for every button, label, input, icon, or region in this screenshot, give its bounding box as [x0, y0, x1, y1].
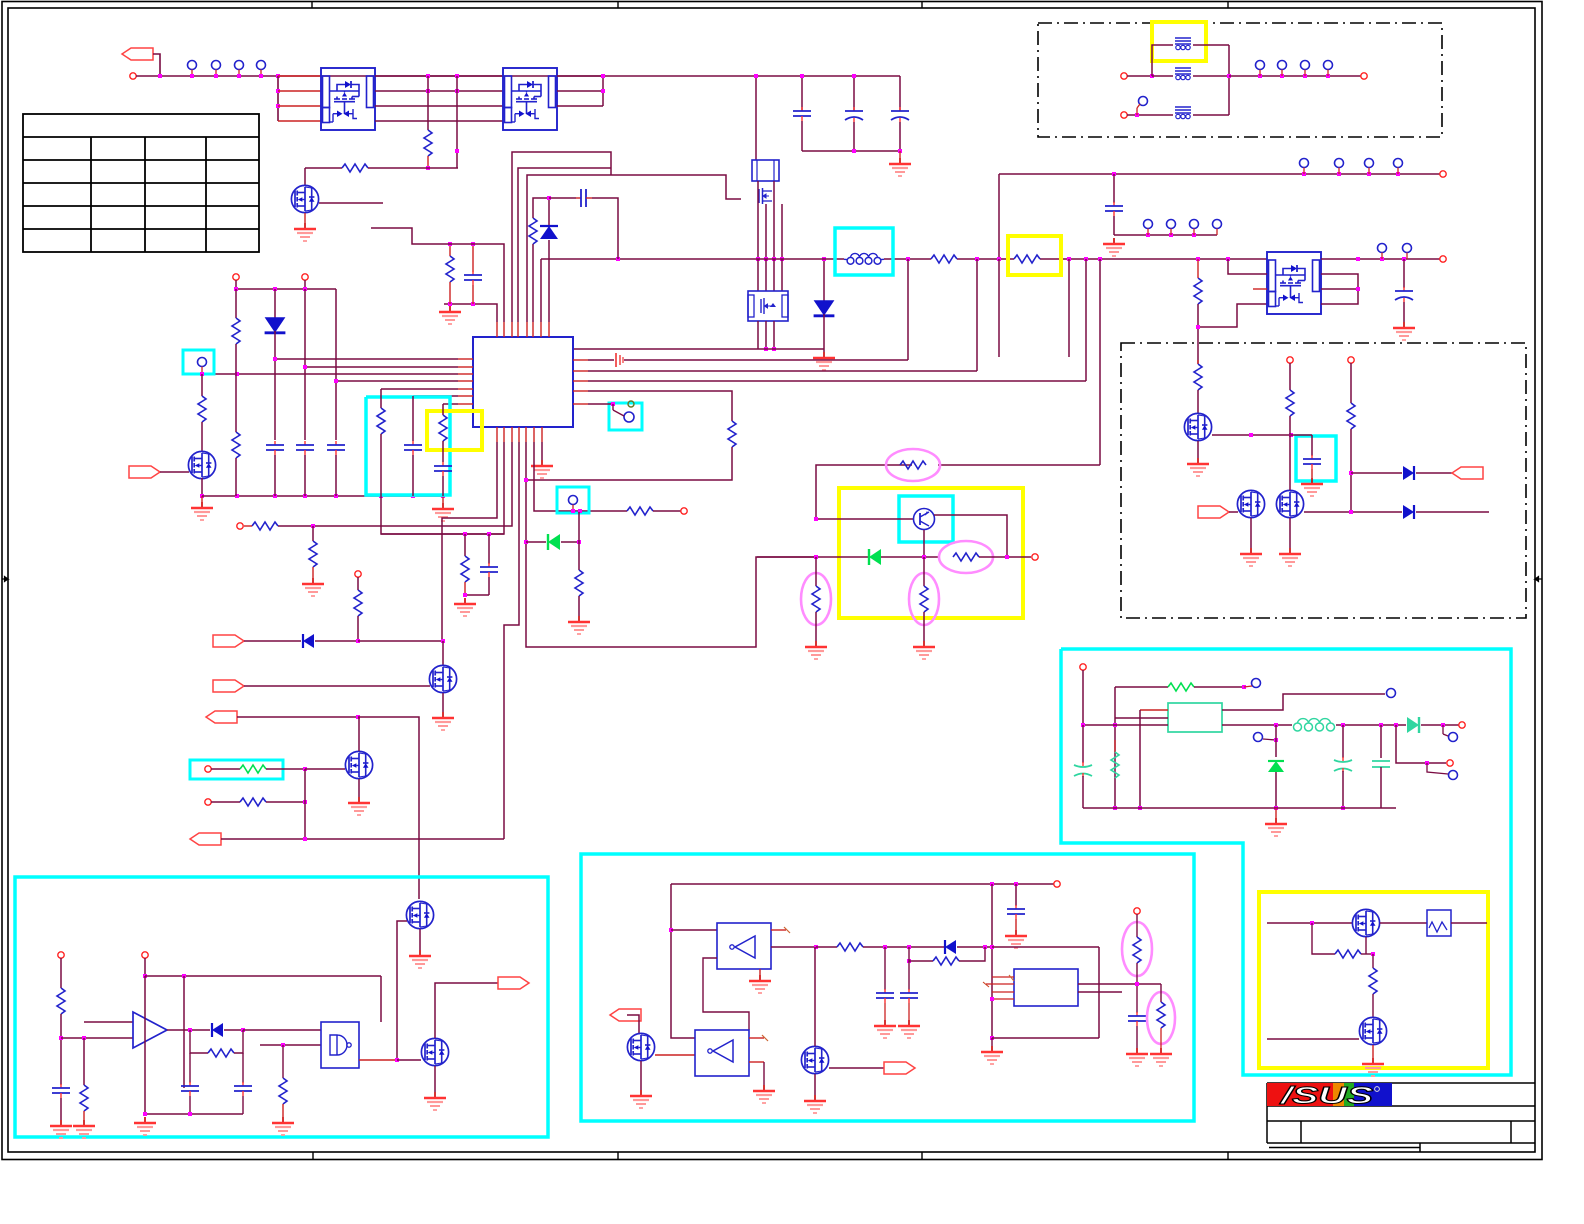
IC bottom pins — [496, 427, 498, 442]
capacitor C16 mint — [1342, 725, 1344, 758]
wire Q13 drain to diode D9 — [1304, 511, 1402, 513]
pin y404 cyan TP box — [609, 403, 642, 430]
test points TP row — [1300, 159, 1309, 175]
mosfet Q3 — [291, 185, 318, 212]
diode D4 column — [274, 289, 276, 318]
resistor R17 — [442, 404, 444, 415]
resistor R10 drop — [1194, 278, 1202, 304]
magenta ellipse R40 — [1147, 992, 1175, 1044]
connector arrow P7 — [1452, 467, 1483, 479]
mosfet Q4 — [759, 188, 772, 204]
pin x534 run — [534, 442, 627, 511]
capacitor C8 — [549, 197, 576, 199]
resistor R21 — [627, 507, 653, 515]
capacitor C5 — [1113, 174, 1115, 203]
diode D13 — [945, 940, 956, 954]
inductor L1 highlight box — [835, 228, 893, 275]
pin wire x527 — [527, 175, 741, 322]
main sense bus — [757, 556, 816, 558]
wire Q7 source to gnd bus — [201, 478, 203, 496]
cyan TP box left — [183, 350, 214, 374]
wire Q3 drain right — [319, 202, 383, 204]
wire base row — [816, 518, 914, 520]
left bus wires — [275, 358, 458, 360]
out row — [771, 946, 816, 948]
test point TP2 — [212, 61, 221, 77]
caps C22 C23 — [884, 947, 886, 990]
resistor R16 — [380, 389, 382, 408]
mosfet Q9 — [345, 751, 372, 778]
capacitor C2 — [853, 76, 855, 111]
pin x512 run — [278, 442, 512, 526]
output row + inductor L2 — [1222, 724, 1292, 726]
capacitor C17 mint — [1380, 725, 1382, 758]
dash-dot highlight box middle right — [1121, 343, 1526, 618]
magenta ellipse R29 + resistor — [801, 573, 831, 625]
cyan highlight box — [899, 496, 953, 542]
resistor R1 column — [427, 76, 429, 130]
capacitor C12 — [412, 396, 414, 441]
controller U6 — [1014, 969, 1078, 1006]
wire emitter down — [923, 530, 925, 557]
ground Q7 — [201, 496, 203, 502]
border zone tick top 2 — [617, 2, 619, 9]
wire from VIN down — [755, 76, 757, 160]
top feedback wire — [145, 975, 381, 977]
gate loop resistor R41 — [1312, 923, 1335, 954]
IC top pin risers — [496, 322, 498, 337]
diode D3 + wire x549 — [548, 240, 550, 322]
ground low bus — [813, 352, 835, 370]
border zone tick bottom 1 — [312, 1152, 314, 1160]
border zone tick top 1 — [311, 2, 313, 9]
mosfet Q12 + arrow P8 — [1198, 506, 1229, 518]
pin y391 wire + resistor R18 — [588, 391, 732, 421]
resistor R19 — [252, 522, 278, 530]
pin wire x533 + resistor R12 — [532, 244, 534, 322]
ferrite bead FB3 — [1175, 107, 1191, 119]
wire collector right — [934, 515, 1007, 557]
wires right of pack Q6 — [1321, 258, 1440, 260]
ground right — [442, 496, 444, 503]
magenta ellipse R27 — [886, 449, 940, 481]
cyan highlight box — [581, 854, 1194, 1121]
regulator U2 — [1168, 703, 1222, 732]
capacitor C24 — [1128, 1012, 1146, 1026]
green diode D7 — [869, 549, 881, 565]
capacitor C18 — [52, 1084, 70, 1098]
lower bead branch — [1121, 112, 1127, 118]
terminal + resistor R26 — [205, 799, 211, 805]
wire rows into Q1 pack — [278, 90, 321, 92]
wire top ellipse run — [938, 464, 1100, 466]
resistor R34 — [80, 1085, 88, 1111]
mosfet Q8 — [442, 641, 444, 665]
resistor R15 — [232, 432, 240, 458]
wire top row — [1115, 686, 1168, 688]
wire Q3 source — [304, 213, 306, 223]
test point TP4 — [257, 61, 266, 77]
wire loop from diode down — [992, 946, 1099, 948]
yellow highlight box — [1259, 892, 1488, 1068]
bottom join wire — [145, 1113, 243, 1115]
border zone tick bottom 4 — [1227, 1152, 1229, 1160]
mosfet pack Q5 — [748, 291, 788, 321]
capacitor C9 — [266, 441, 284, 455]
ground C6 — [1393, 322, 1415, 340]
wires Q4 to bus — [757, 181, 759, 258]
pin x519 run — [504, 442, 519, 839]
inductor L1 — [844, 253, 884, 264]
connector arrow P9 — [498, 977, 529, 989]
wire branch — [381, 533, 504, 535]
top rail wire — [671, 883, 1054, 885]
main 5V bus wire — [541, 258, 844, 260]
magenta ellipse R39 — [1122, 922, 1152, 976]
wire cap join — [802, 150, 900, 152]
wire link — [304, 769, 306, 839]
wire row into pack — [1228, 259, 1267, 274]
mosfet Q16 + arrow — [610, 1009, 641, 1021]
resistor R11 — [449, 244, 451, 256]
mint resistor R32 — [1114, 740, 1116, 752]
resistor R33 — [57, 988, 65, 1014]
ground Q3 — [294, 223, 316, 241]
mosfet Q13 — [1276, 490, 1303, 517]
capacitor C1 — [801, 76, 803, 111]
pins left — [1140, 709, 1168, 711]
wire top row — [1267, 922, 1352, 924]
wire stubs down from bus — [907, 259, 909, 360]
cyan highlight outline — [1061, 649, 1511, 1075]
in+ wire — [84, 1021, 133, 1023]
capacitor C7 — [472, 244, 474, 272]
inverter U7 — [695, 1030, 749, 1076]
resistor R36 — [282, 1045, 284, 1078]
mosfet Q14 — [406, 901, 433, 928]
wire rows right of Q2 — [557, 75, 603, 77]
connector block J2 — [752, 160, 779, 181]
left drop — [671, 884, 695, 1038]
test point TP3 — [235, 61, 244, 77]
yellow highlight box R9 — [1008, 236, 1061, 275]
pin wire x541 bus riser — [540, 259, 542, 322]
cyan box cap C15 — [1296, 436, 1336, 481]
pin x504 run — [381, 442, 504, 534]
border zone tick bottom 3 — [921, 1152, 923, 1160]
column x336 — [335, 289, 337, 381]
junction dots on VIN — [158, 74, 162, 78]
resistor R37 — [837, 943, 863, 951]
capacitor C13 — [434, 462, 452, 476]
mosfet Q11 — [1184, 413, 1211, 440]
wire feed column — [277, 76, 279, 121]
mosfet pack Q1 — [321, 68, 375, 130]
dash-dot highlight box top right — [1038, 23, 1442, 137]
ground — [454, 598, 476, 616]
title block — [1267, 1083, 1535, 1152]
border zone tick top 3 — [921, 2, 923, 9]
resistor R8 — [931, 255, 957, 263]
input wires — [61, 1037, 133, 1039]
ground bottom — [1275, 808, 1277, 818]
mosfet Q19 — [1359, 1017, 1386, 1044]
terminal — [130, 73, 136, 79]
capacitor C14 — [488, 534, 490, 564]
mosfet Q15 — [421, 1038, 448, 1065]
mosfet Q18 — [1352, 909, 1379, 936]
resistor R2 gate — [305, 167, 342, 169]
resistor R35 loop — [190, 1030, 208, 1053]
op out + diode D12 — [167, 1029, 210, 1031]
connector arrow P5 — [206, 711, 237, 723]
terminal col 2 — [142, 952, 148, 958]
IC U1 — [473, 337, 573, 427]
IC left pins — [458, 358, 473, 360]
pin x542 ground — [541, 442, 543, 460]
resistor R22 — [578, 512, 580, 542]
gate out wire — [359, 1059, 397, 1061]
wire left column — [1114, 687, 1116, 808]
terminals feed — [233, 274, 239, 280]
cyan TP box below IC — [557, 487, 589, 513]
lower out pair — [1396, 725, 1446, 763]
terminal left mid — [1121, 73, 1127, 79]
border zone tick top 4 — [1227, 2, 1229, 9]
border zone tick left — [2, 577, 8, 582]
yellow highlight box bead — [1152, 22, 1206, 61]
pin y360 power flag — [588, 359, 614, 361]
capacitor C3 — [899, 76, 901, 111]
gnd bus wire — [202, 495, 443, 497]
bottom bus — [1083, 807, 1396, 809]
diode D6 — [244, 640, 301, 642]
capacitor C6 — [1403, 259, 1405, 288]
thermistor RT1 — [1380, 922, 1427, 924]
pin wire x497 to gnd bus — [444, 304, 497, 322]
capacitor C21 — [1015, 884, 1017, 906]
wire into gate block — [243, 1029, 321, 1031]
bead parallel loop — [1152, 45, 1173, 76]
diode D5 green — [548, 534, 560, 550]
resistor R38 bypass — [909, 947, 933, 961]
pin y371 wire — [588, 370, 977, 372]
connector arrow P4 — [213, 680, 244, 692]
inverter U5 — [717, 923, 771, 969]
op-amp U3 — [133, 1012, 167, 1048]
diode D11 mint out — [1407, 717, 1419, 733]
resistor R14 — [235, 289, 237, 318]
capacitor C19 — [189, 1053, 191, 1083]
ASUS logo — [1267, 1083, 1392, 1110]
border zone tick bottom 2 — [617, 1152, 619, 1160]
wire join — [465, 594, 489, 596]
cyan highlight box — [15, 877, 548, 1137]
column x305 — [304, 289, 306, 367]
connector arrow P6 — [190, 833, 221, 845]
ground cap C5 — [1103, 238, 1125, 256]
capacitor C11 — [327, 441, 345, 455]
wire rows between packs — [375, 75, 503, 77]
wires bus to pack Q5 — [757, 259, 759, 291]
resistor R13 — [201, 374, 203, 396]
resistor R42 — [1372, 954, 1374, 968]
pin x526 run — [526, 442, 816, 647]
pin wire x504 feed — [371, 228, 504, 322]
resistor R23 — [464, 534, 466, 556]
terminal + resistor R24 column — [355, 571, 361, 577]
resistor R27 — [900, 461, 926, 469]
pins right + wire to TP — [1222, 694, 1385, 710]
connector arrow P3 — [213, 635, 244, 647]
test point TP1 — [188, 61, 197, 77]
TP + green diode D10 column — [1254, 733, 1263, 742]
terminal in — [1080, 664, 1086, 670]
wire — [153, 54, 160, 76]
wire top h — [236, 288, 336, 290]
capacitor C10 — [296, 441, 314, 455]
yellow highlight box — [839, 488, 1023, 618]
revision table — [23, 114, 259, 252]
svg-text:/SUS: /SUS — [1279, 1083, 1373, 1110]
wire TP spur — [1114, 234, 1217, 236]
cyan strip highlight — [190, 760, 283, 779]
mosfet pack Q2 — [503, 68, 557, 130]
terminal + green resistor R25 — [205, 766, 211, 772]
wire rail to bus — [998, 174, 1000, 259]
pin x497 run — [442, 442, 497, 641]
capacitor C20 — [242, 1053, 244, 1083]
wire diode D8 out — [1349, 471, 1353, 475]
wire column x457 — [456, 76, 458, 168]
wires pack Q5 to low bus — [757, 321, 759, 349]
resistor R31 — [1197, 360, 1199, 364]
wire Q11 drain — [1212, 434, 1291, 436]
wire Q14 gate link — [397, 921, 407, 1060]
magenta ellipse R28 — [939, 541, 993, 573]
terminal — [1440, 171, 1446, 177]
U5 gnd — [759, 969, 761, 975]
pin wire x518 — [518, 168, 611, 322]
U5 left link down — [703, 958, 749, 1030]
transistor Q10 — [914, 509, 935, 530]
mosfet Q7 — [188, 451, 215, 478]
border zone tick right — [1535, 577, 1542, 582]
mosfet Q17 + arrow out — [801, 1046, 828, 1073]
nand gate U4 — [321, 1022, 359, 1068]
ferrite bead FB1 — [1175, 38, 1191, 50]
resistor R9 — [1014, 255, 1040, 263]
mosfet pack Q6 — [1267, 252, 1321, 314]
pin wire x512 — [512, 152, 611, 322]
connector arrow P2 — [129, 466, 160, 478]
low bus wire — [574, 348, 824, 350]
magenta ellipse R30 + resistor — [909, 573, 939, 625]
wire to right block — [991, 884, 993, 1038]
test point TP5 — [198, 358, 207, 374]
yellow highlight box — [427, 411, 482, 450]
ferrite bead FB2 — [1175, 68, 1191, 80]
connector arrow P1 — [122, 48, 153, 60]
ground caps — [899, 151, 901, 158]
wire right rail — [1229, 75, 1361, 77]
resistor R20 — [312, 526, 314, 541]
big cyan highlight box — [366, 397, 450, 495]
pin y381 wire — [588, 380, 1086, 382]
wire bus VIN — [136, 75, 900, 77]
diode D2 branch — [823, 259, 825, 301]
wire Q16 to inverter U7 — [655, 1054, 695, 1056]
terminal col 1 — [58, 952, 64, 958]
terminals feed resistors — [1287, 357, 1293, 363]
wire 3V rail — [999, 173, 1440, 175]
IC right pins — [573, 359, 588, 361]
wire to Q3 gate — [304, 168, 306, 185]
